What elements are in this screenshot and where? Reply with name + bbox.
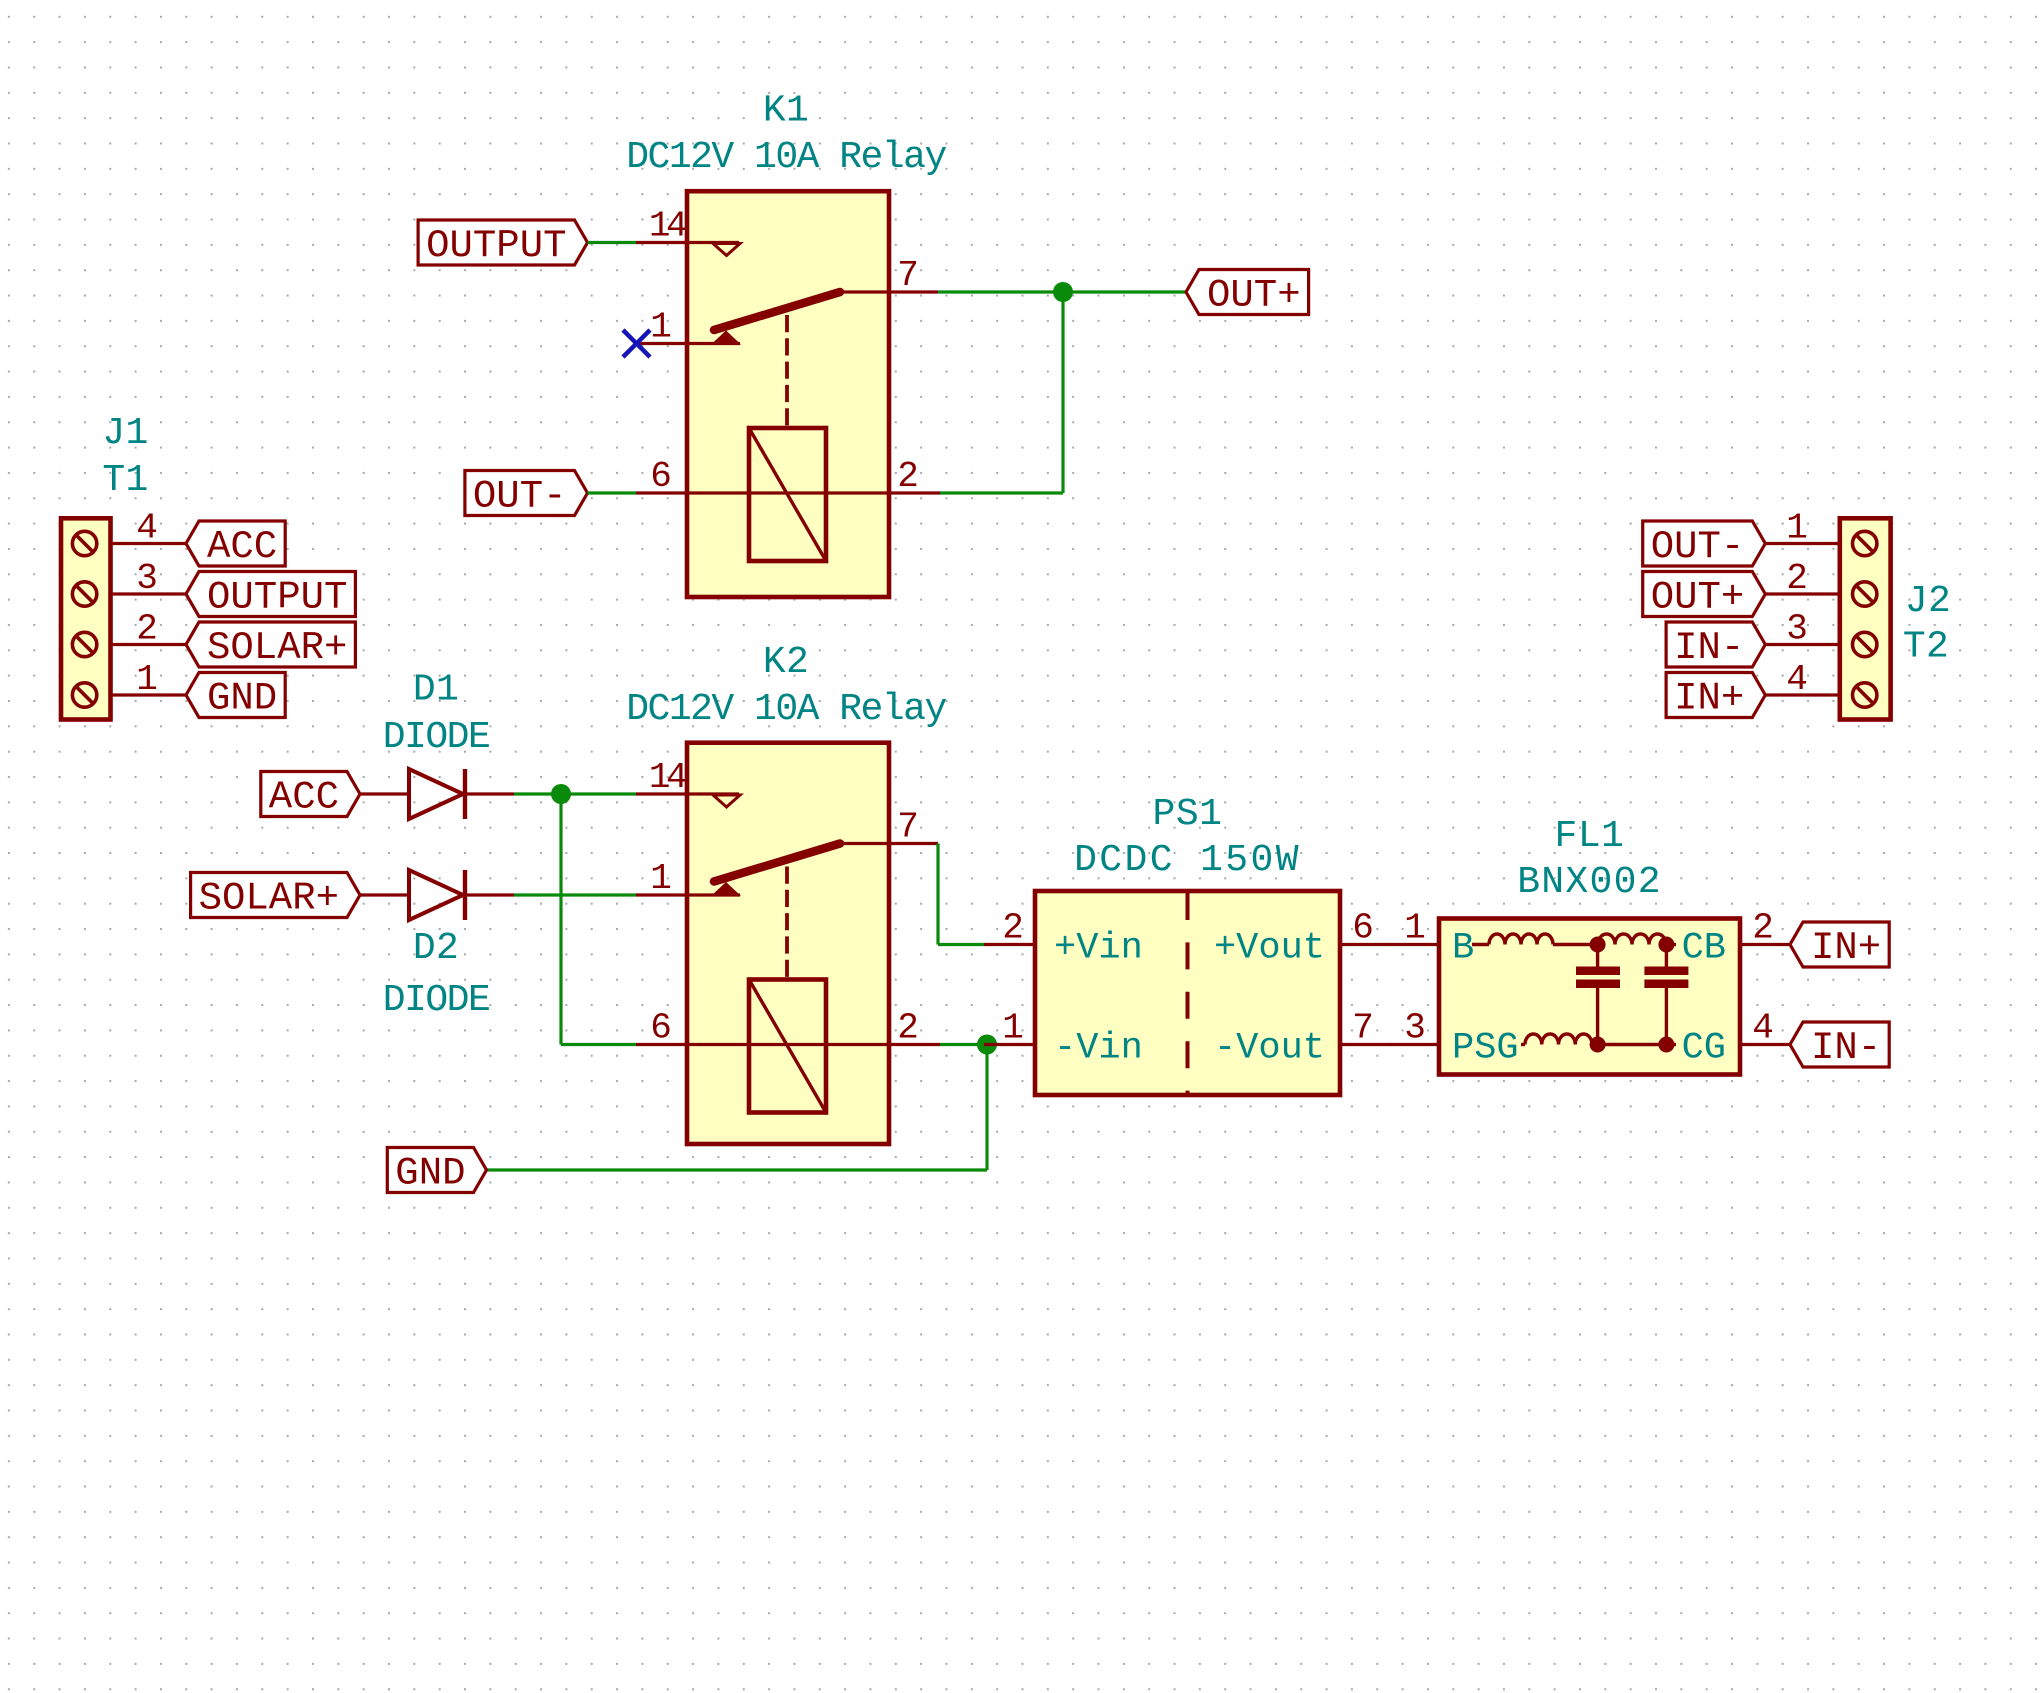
global label OUTPUT (J1 pin 3) (186, 572, 355, 620)
filter FL1 body (1439, 919, 1740, 1075)
FL1 inductor L1 (B side) (1472, 934, 1598, 944)
svg-text:PS1: PS1 (1153, 793, 1223, 836)
svg-text:7: 7 (897, 255, 919, 296)
no-connect X on K1 pin 1 (623, 330, 650, 357)
FL1 pin 4 CG (1682, 1008, 1790, 1070)
connector J1 screw terminal pin 3 (72, 558, 186, 606)
junction node OUT+ (1053, 282, 1073, 302)
svg-text:T1: T1 (102, 459, 148, 502)
svg-text:SOLAR+: SOLAR+ (199, 877, 339, 921)
svg-text:4: 4 (136, 508, 158, 549)
PS1 pin 7 -Vout (1214, 1008, 1391, 1070)
junction node -Vin / GND (977, 1035, 997, 1055)
FL1 pin 2 CB (1682, 908, 1790, 970)
svg-text:IN-: IN- (1674, 626, 1744, 670)
connector J1 body (61, 518, 111, 719)
PS1 pin 6 +Vout (1214, 908, 1391, 970)
wire GND riser (487, 1045, 988, 1171)
svg-text:-Vin: -Vin (1054, 1028, 1143, 1070)
relay K1 pins 6 and 2 (636, 456, 940, 497)
svg-text:DIODE: DIODE (383, 716, 490, 759)
svg-text:FL1: FL1 (1555, 815, 1625, 858)
svg-text:K2: K2 (763, 641, 809, 684)
relay K1 body (687, 191, 889, 597)
relay K1 coil link (dashed) (785, 315, 789, 428)
relay K1 pin 7 (838, 255, 938, 296)
FL1 pin 1 B (1390, 908, 1474, 970)
FL1 internal junction nodes (1590, 937, 1675, 1053)
PS1 pin 1 -Vin (984, 1008, 1143, 1070)
svg-text:CB: CB (1682, 928, 1726, 970)
svg-text:T2: T2 (1903, 626, 1949, 669)
connector J2 screw terminal pin 4 (1765, 659, 1877, 707)
svg-text:D1: D1 (413, 669, 459, 712)
global label ACC (D1 anode) (261, 772, 360, 820)
junction node at D1/D2 coil feed (551, 784, 571, 804)
svg-text:6: 6 (650, 1008, 672, 1049)
svg-text:3: 3 (136, 558, 158, 599)
svg-text:3: 3 (1786, 609, 1808, 650)
svg-text:6: 6 (650, 456, 672, 497)
svg-text:1: 1 (650, 307, 672, 348)
wire OUTPUT to K1 pin 14 (588, 241, 637, 244)
svg-text:PSG: PSG (1452, 1028, 1519, 1070)
relay K2 pin 7 (838, 807, 938, 848)
global label IN- (J2 pin 3) (1666, 622, 1765, 670)
wire OUT+ node down to K1 pin 2 (940, 292, 1063, 493)
diode D1 (360, 769, 514, 819)
connector J2 screw terminal pin 2 (1765, 558, 1877, 606)
relay K1 pin 14 (636, 206, 740, 256)
global label IN+ (FL1 pin 2) (1790, 922, 1889, 970)
svg-text:DC12V 10A Relay: DC12V 10A Relay (626, 688, 946, 731)
relay K2 pin 1 (636, 858, 740, 899)
global label SOLAR+ (D2 anode) (191, 873, 360, 921)
svg-text:OUT-: OUT- (1651, 525, 1745, 569)
svg-text:+Vout: +Vout (1214, 928, 1325, 970)
relay K2 body (687, 743, 889, 1144)
global label IN+ (J2 pin 4) (1666, 673, 1765, 721)
connector J1 reference (102, 412, 148, 502)
global label OUT+ (K1) (1186, 270, 1309, 318)
connector J2 screw terminal pin 1 (1765, 508, 1877, 556)
svg-text:1: 1 (136, 659, 158, 700)
svg-text:GND: GND (207, 677, 277, 721)
svg-text:ACC: ACC (207, 525, 277, 569)
FL1 capacitor C2 (1644, 945, 1688, 1045)
relay K2 coil (749, 980, 826, 1113)
wire K2 pin 7 to PS1 +Vin (938, 844, 984, 945)
svg-text:K1: K1 (763, 90, 809, 133)
connector J1 screw terminal pin 1 (72, 659, 186, 707)
relay K2 reference and value (626, 641, 946, 731)
wire OUT- to K1 pin 6 (588, 491, 637, 494)
svg-text:2: 2 (1786, 558, 1808, 599)
connector J2 screw terminal pin 3 (1765, 609, 1877, 657)
diode D1 reference and value (383, 669, 490, 760)
svg-text:CG: CG (1682, 1028, 1726, 1070)
svg-text:6: 6 (1352, 908, 1374, 949)
relay K2 switch arm (711, 844, 840, 897)
global label OUT+ (J2 pin 2) (1643, 572, 1766, 620)
connector J1 screw terminal pin 2 (72, 609, 186, 657)
svg-text:DC12V 10A Relay: DC12V 10A Relay (626, 136, 946, 179)
global label SOLAR+ (J1 pin 2) (186, 622, 355, 670)
global label IN- (FL1 pin 4) (1790, 1022, 1889, 1070)
FL1 inductor L3 (PSG side) (1521, 1034, 1676, 1045)
global label OUT- (K1) (465, 471, 588, 519)
svg-text:1: 1 (1002, 1008, 1024, 1049)
power supply PS1 body (1035, 891, 1340, 1095)
svg-text:2: 2 (136, 609, 158, 650)
svg-text:2: 2 (1002, 908, 1024, 949)
wire junction down to K2 pin 6 (561, 794, 636, 1045)
svg-text:4: 4 (1786, 659, 1808, 700)
svg-text:-Vout: -Vout (1214, 1028, 1325, 1070)
connector J2 reference (1903, 580, 1951, 669)
relay K1 pin 1 (636, 307, 740, 348)
power supply PS1 reference and value (1074, 793, 1301, 882)
svg-text:IN+: IN+ (1674, 677, 1744, 721)
global label OUTPUT (K1 coil) (418, 220, 587, 268)
svg-text:+Vin: +Vin (1054, 928, 1143, 970)
FL1 inductor L2 (CB side) (1598, 934, 1676, 944)
svg-text:4: 4 (1752, 1008, 1774, 1049)
FL1 capacitor C1 (1576, 945, 1620, 1045)
svg-text:1: 1 (1404, 908, 1426, 949)
svg-text:OUT+: OUT+ (1207, 274, 1301, 318)
wire K1 pin 7 to OUT+ (938, 290, 1186, 293)
svg-text:IN-: IN- (1811, 1026, 1881, 1070)
global label GND (K2/PS1) (387, 1148, 486, 1196)
svg-text:3: 3 (1404, 1008, 1426, 1049)
connector J1 screw terminal pin 4 (72, 508, 186, 556)
relay K2 pin 14 (636, 757, 740, 807)
svg-text:SOLAR+: SOLAR+ (207, 626, 347, 670)
svg-text:2: 2 (1752, 908, 1774, 949)
wire D2 cathode to K2 pin 1 (514, 893, 636, 896)
svg-text:B: B (1452, 928, 1474, 970)
relay K2 pins 6 and 2 (636, 1008, 940, 1049)
svg-text:J2: J2 (1905, 580, 1951, 623)
svg-text:1: 1 (650, 858, 672, 899)
svg-text:GND: GND (395, 1152, 465, 1196)
svg-text:BNX002: BNX002 (1517, 861, 1662, 904)
svg-text:2: 2 (897, 1008, 919, 1049)
relay K1 switch arm (711, 292, 840, 345)
filter FL1 reference and value (1517, 815, 1662, 904)
global label OUT- (J2 pin 1) (1643, 521, 1766, 569)
svg-text:D2: D2 (413, 927, 459, 970)
PS1 pin 2 +Vin (984, 908, 1143, 970)
svg-text:J1: J1 (102, 412, 148, 455)
FL1 pin 3 PSG (1390, 1008, 1519, 1070)
svg-text:IN+: IN+ (1811, 926, 1881, 970)
svg-text:OUTPUT: OUTPUT (426, 224, 566, 268)
svg-text:OUTPUT: OUTPUT (207, 576, 347, 620)
svg-text:DIODE: DIODE (383, 979, 490, 1022)
global label ACC (J1 pin 4) (186, 521, 285, 569)
svg-text:ACC: ACC (269, 776, 339, 820)
svg-text:2: 2 (897, 456, 919, 497)
relay K1 reference and value (626, 90, 946, 180)
connector J2 body (1840, 518, 1891, 719)
svg-text:1: 1 (1786, 508, 1808, 549)
wire K2 pin 2 to PS1 -Vin (940, 1043, 984, 1046)
diode D2 (360, 870, 514, 920)
relay K1 coil (749, 428, 826, 561)
svg-text:OUT-: OUT- (473, 475, 567, 519)
global label GND (J1 pin 1) (186, 673, 285, 721)
wire D1 cathode to K2 pin 14 (514, 792, 636, 795)
svg-text:OUT+: OUT+ (1651, 576, 1745, 620)
svg-text:14: 14 (649, 206, 686, 247)
diode D2 reference and value (383, 927, 490, 1022)
relay K2 coil link (dashed) (785, 867, 789, 980)
svg-text:7: 7 (897, 807, 919, 848)
svg-text:DCDC 150W: DCDC 150W (1074, 839, 1301, 882)
svg-text:7: 7 (1352, 1008, 1374, 1049)
svg-text:14: 14 (649, 757, 686, 798)
